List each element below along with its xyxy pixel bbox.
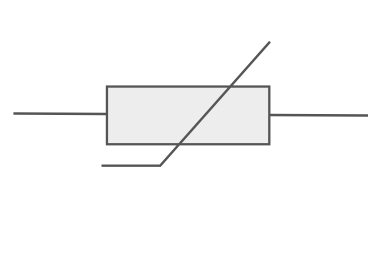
wire left lead — [13, 112, 107, 115]
thermistor RT1 strike (bent diagonal) — [102, 42, 271, 166]
thermistor RT1 body — [107, 87, 269, 145]
wire right lead — [269, 114, 368, 117]
